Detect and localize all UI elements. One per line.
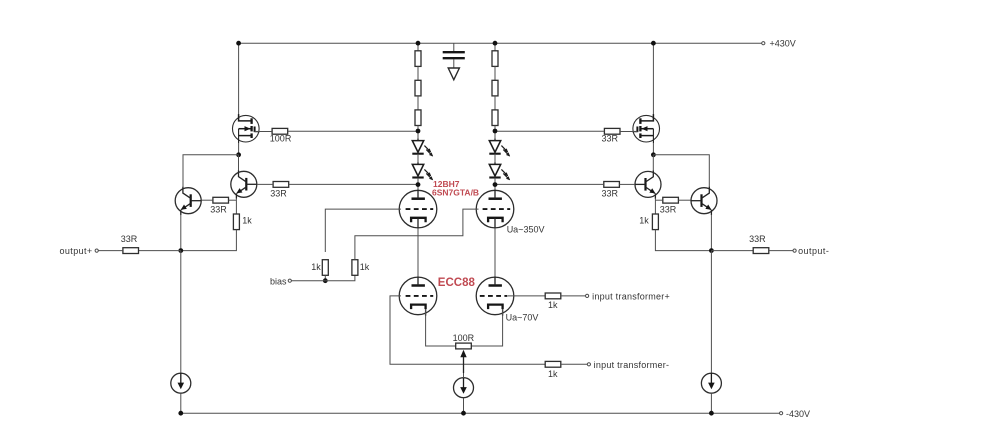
resistor 1k input+ [545,293,561,299]
terminal input transformer+ [586,294,589,297]
svg-text:1k: 1k [242,216,252,226]
svg-text:1k: 1k [360,262,370,272]
node output+ [178,248,183,253]
resistor 1k left driver [233,214,239,230]
wire 100R to left LED node [288,130,418,132]
LED right 1 [489,139,510,157]
wire bias node to 1k right [325,275,355,280]
current source middle [454,378,474,398]
resistor 1k right driver [652,214,658,230]
node chain left top [416,41,421,46]
terminal -430V [780,412,783,415]
resistor 33R right inner [663,197,679,203]
wire 33R to left LED lower node [289,183,418,185]
node right source [651,152,656,157]
wire node right to outer collector [653,155,709,187]
wire node to left driver collector [238,155,240,171]
svg-text:6SN7GTA/B: 6SN7GTA/B [432,188,479,198]
wire 33R to driver emitter node [229,199,237,201]
wire right LED1 to LED2 [494,154,496,165]
node right gate row [493,129,498,134]
resistor 33R left inner [213,197,229,203]
svg-text:33R: 33R [749,234,766,244]
wire bias 1k right to right 12BH7 grid [355,209,479,260]
node left anode [416,182,421,187]
potentiometer wiper arrow [460,350,466,373]
wire driver base to 33R [257,183,273,185]
node chain right top [493,41,498,46]
wire right ECC88 grid to input transformer+ row [508,295,545,297]
resistor chain left 1 [415,51,421,67]
LED left 2 [412,162,433,180]
wire chain left 1-2 [417,66,419,80]
triode 12BH7 left [399,190,437,229]
terminal input transformer- [587,363,590,366]
resistor 33R output+ [123,248,139,254]
wire left LED1 to LED2 [417,154,419,165]
wire rail to right MOSFET drain [652,43,654,114]
terminal output- [793,249,796,252]
svg-text:input transformer+: input transformer+ [592,292,670,302]
resistor 33R right gate [604,128,620,134]
triode ECC88 left [399,277,437,316]
wire right driver emitter to 1k [654,198,656,213]
current source right [701,373,721,393]
wire right outer base to 33R [678,199,690,201]
wire right driver base to 33R [619,183,635,185]
LED left 1 [412,139,433,157]
resistor chain right 2 [492,80,498,96]
svg-text:+430V: +430V [770,39,796,49]
resistor chain left 3 [415,110,421,126]
transistor left driver [231,170,257,198]
resistor chain right 1 [492,51,498,67]
top rail +430V [239,42,762,44]
wire node to right driver collector [652,155,654,171]
wire 33R to output- terminal [769,250,793,252]
terminal bias [288,279,291,282]
wire node left to outer collector [183,155,239,187]
resistor 1k input- [545,361,561,367]
LED right 2 [489,162,510,180]
wire right ECC88 cathode to pot [471,309,502,346]
svg-text:33R: 33R [660,205,677,215]
wire 33R to right LED lower node [495,183,604,185]
wire left outer emitter down [180,215,182,251]
svg-text:1k: 1k [311,262,321,272]
node rail bottom right [709,411,714,416]
resistor chain left 2 [415,80,421,96]
wire left ECC88 cathode to pot [426,309,456,346]
wire chain left 3 to LED [417,126,419,141]
wire 33R to output+ terminal [98,250,123,252]
wire rail to capacitor [453,43,455,51]
terminal +430V [762,42,765,45]
potentiometer 100R body [456,343,472,349]
wire output- node to right current source [710,251,712,374]
wire chain right 1-2 [494,66,496,80]
wire right current source to rail [710,393,712,413]
resistor 1k bias left [322,260,328,276]
wire capacitor to ground [453,59,455,68]
transistor right driver [635,170,661,198]
wire bias terminal to node [291,280,325,282]
capacitor top plate [443,51,465,53]
svg-text:33R: 33R [210,205,227,215]
svg-text:Ua~70V: Ua~70V [506,312,539,322]
wire left driver emitter to 1k [235,198,237,213]
node rail bottom middle [461,411,466,416]
ground [448,68,459,80]
resistor 33R right base row [604,182,620,188]
wire right LED2 to anode node [494,178,496,191]
wire 33R to right driver emitter node [655,199,662,201]
terminal output+ [95,249,98,252]
wire 1k input+ to terminal [561,295,586,297]
svg-text:100R: 100R [453,333,475,343]
wire chain right 3 to LED [494,126,496,141]
svg-text:bias: bias [270,276,287,286]
wire node to 33R output+ [139,250,181,252]
transistor right outer [691,187,717,215]
wire 1k input- to terminal [561,363,587,365]
wire left MOSFET source to node [238,143,240,155]
svg-text:33R: 33R [121,234,138,244]
wire right outer emitter down [710,215,712,251]
MOSFET left [233,114,260,143]
node output- [709,248,714,253]
resistor 33R left base row [273,182,289,188]
wire 33R to right LED node [495,130,604,132]
svg-text:output-: output- [798,246,829,256]
wire 1k to output node left [181,230,237,251]
node right anode [493,182,498,187]
svg-text:1k: 1k [548,369,558,379]
left supply chain wire from rail [417,43,419,51]
wire node to 33R output- [711,250,753,252]
triode ECC88 right [476,277,514,316]
resistor chain right 3 [492,110,498,126]
wire right 12BH7 cathode to right ECC88 anode [494,228,496,278]
triode 12BH7 right [476,190,514,229]
svg-text:100R: 100R [270,134,292,144]
resistor 1k bias right [352,260,358,276]
wire middle current source top lead [463,373,465,378]
resistor 100R left gate [272,128,288,134]
wire bias 1k left to bias node [324,275,326,280]
right supply chain wire from rail [494,43,496,51]
wire left current source to rail [180,393,182,413]
wire output node to left current source [180,251,182,374]
wire left 12BH7 cathode to left ECC88 anode [417,228,419,278]
wire left LED2 to anode node [417,178,419,191]
wire left gate to 100R [255,131,273,133]
wire middle current source to rail [463,398,465,414]
node rail right [651,41,656,46]
node left gate row [416,129,421,134]
wire right gate to 33R [620,131,638,133]
resistor 33R output- [753,248,769,254]
wire left ECC88 grid to input transformer- row [390,296,545,364]
wire chain right 2-3 [494,96,496,110]
transistor left outer [175,187,201,215]
capacitor bottom plate [443,57,465,59]
bottom rail -430V [181,412,780,414]
svg-text:Ua~350V: Ua~350V [507,225,545,235]
node bias [323,278,328,283]
node left source [236,152,241,157]
svg-text:-430V: -430V [786,409,810,419]
svg-text:33R: 33R [270,189,287,199]
svg-text:33R: 33R [602,134,619,144]
wire chain left 2-3 [417,96,419,110]
svg-text:ECC88: ECC88 [438,277,476,289]
node rail bottom left [178,411,183,416]
MOSFET right [632,114,659,143]
current source left [171,373,191,393]
wire rail to left MOSFET drain [238,43,240,114]
svg-text:1k: 1k [548,300,558,310]
wire right MOSFET source to node [652,143,654,155]
svg-text:output+: output+ [60,246,93,256]
wire 1k to output node right [655,230,711,251]
wire left 12BH7 grid from bias 1k [325,209,401,252]
svg-text:input transformer-: input transformer- [594,360,670,370]
wire left outer base to 33R [201,199,213,201]
svg-text:33R: 33R [602,189,619,199]
node rail left [236,41,241,46]
svg-text:1k: 1k [639,216,649,226]
